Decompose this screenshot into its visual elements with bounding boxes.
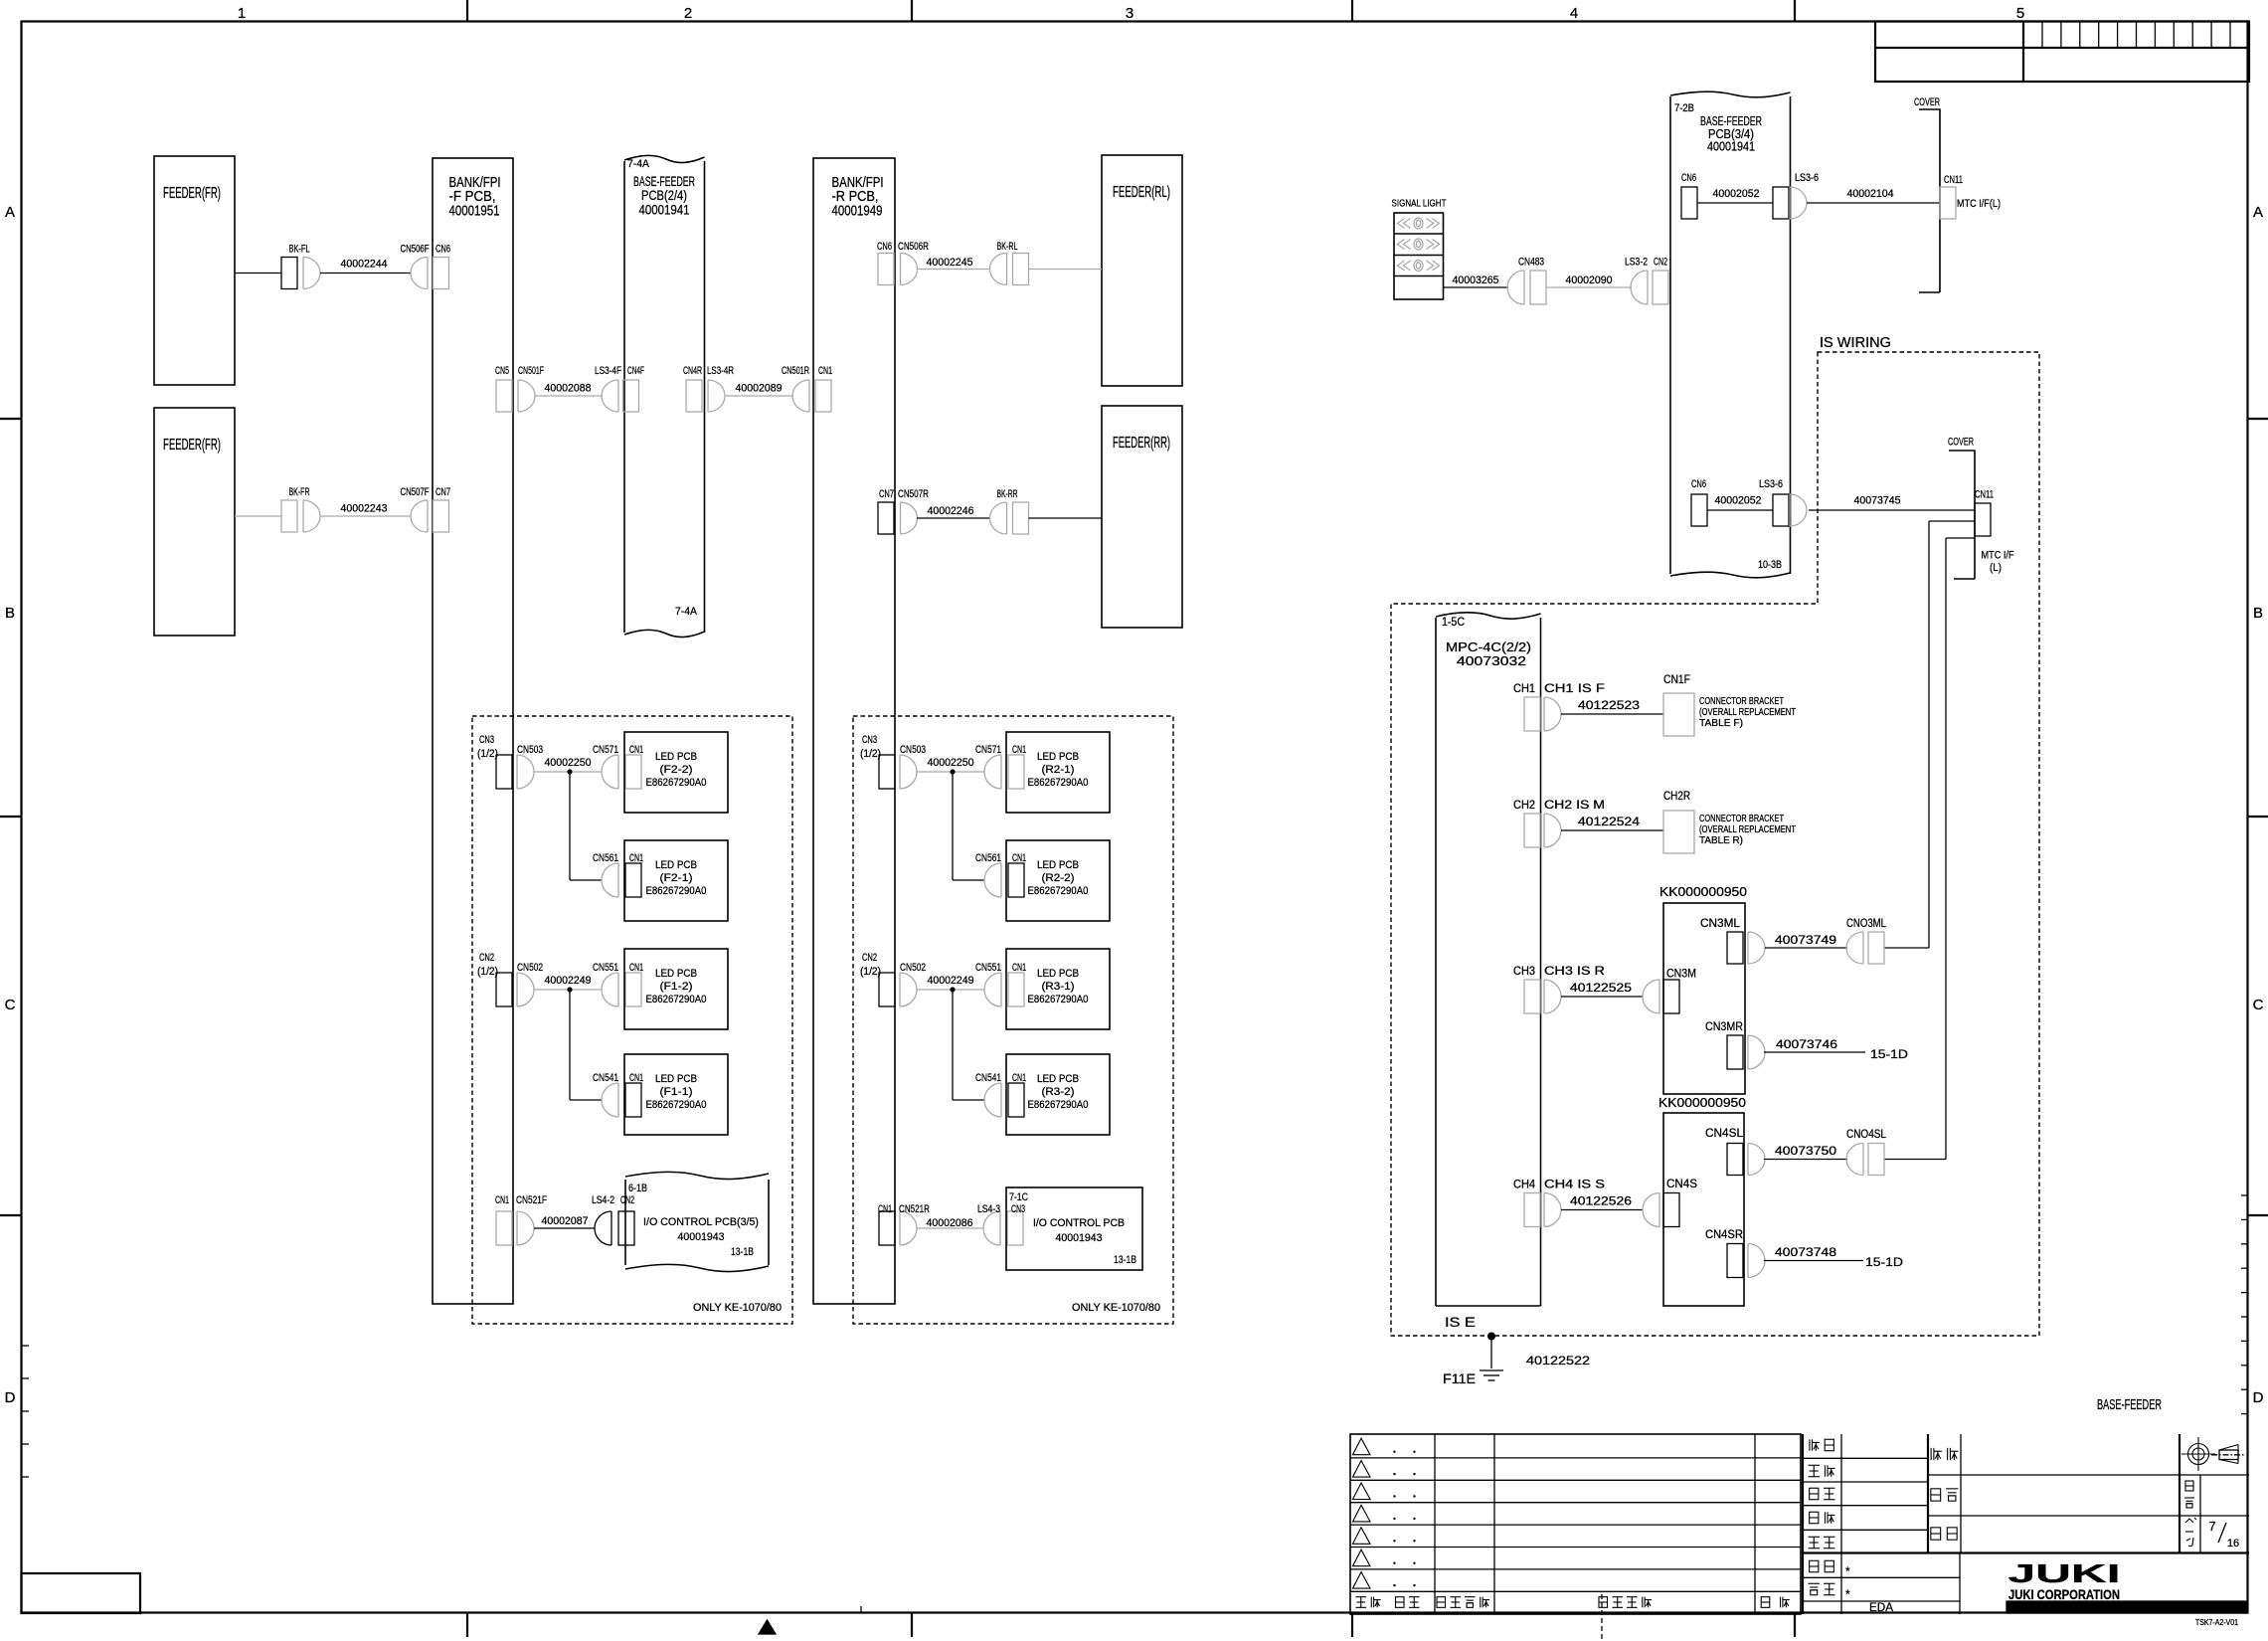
- svg-text:40002243: 40002243: [341, 503, 388, 515]
- svg-text:(1/2): (1/2): [860, 966, 881, 978]
- svg-text:JUKI CORPORATION: JUKI CORPORATION: [2008, 1587, 2120, 1602]
- svg-text:A: A: [5, 204, 15, 221]
- svg-text:CN11: CN11: [1975, 489, 1994, 501]
- svg-text:7-4A: 7-4A: [675, 606, 697, 618]
- svg-text:CN3M: CN3M: [1666, 967, 1696, 981]
- svg-text:MTC I/F: MTC I/F: [1982, 550, 2014, 562]
- svg-text:D: D: [5, 1389, 16, 1406]
- svg-text:(R2-2): (R2-2): [1042, 872, 1075, 884]
- svg-text:15-1D: 15-1D: [1870, 1049, 1908, 1061]
- svg-text:(F2-1): (F2-1): [660, 872, 693, 884]
- svg-text:E86267290A0: E86267290A0: [1028, 885, 1089, 897]
- svg-text:40002104: 40002104: [1847, 188, 1894, 200]
- svg-text:40002244: 40002244: [341, 259, 388, 271]
- svg-text:40122523: 40122523: [1578, 700, 1640, 712]
- svg-text:CN1: CN1: [629, 744, 643, 756]
- svg-text:IS E: IS E: [1445, 1315, 1476, 1330]
- svg-text:1-5C: 1-5C: [1442, 617, 1465, 629]
- svg-text:6-1B: 6-1B: [628, 1183, 647, 1194]
- svg-text:E86267290A0: E86267290A0: [1028, 777, 1089, 789]
- svg-text:C: C: [2253, 997, 2264, 1013]
- svg-text:CN2: CN2: [620, 1194, 634, 1206]
- svg-text:CN3MR: CN3MR: [1705, 1019, 1743, 1033]
- svg-text:13-1B: 13-1B: [1114, 1254, 1136, 1266]
- svg-text:CN502: CN502: [900, 962, 926, 974]
- svg-text:7-4A: 7-4A: [627, 158, 649, 170]
- svg-text:CONNECTOR BRACKET: CONNECTOR BRACKET: [1699, 814, 1784, 824]
- svg-text:*: *: [1845, 1587, 1850, 1601]
- svg-text:CN501R: CN501R: [782, 365, 809, 377]
- svg-text:CN7: CN7: [879, 488, 894, 500]
- svg-text:3: 3: [1126, 5, 1134, 22]
- svg-text:40001949: 40001949: [832, 202, 883, 219]
- svg-text:BK-FR: BK-FR: [289, 486, 310, 498]
- svg-text:CN541: CN541: [593, 1072, 618, 1084]
- svg-text:BK-FL: BK-FL: [289, 244, 310, 256]
- svg-text:CN1: CN1: [1012, 962, 1026, 974]
- svg-text:CN1: CN1: [629, 1072, 643, 1084]
- svg-text:CN2: CN2: [1654, 257, 1667, 269]
- svg-text:40073748: 40073748: [1775, 1247, 1836, 1259]
- svg-text:CN5: CN5: [495, 365, 509, 377]
- svg-text:BASE-FEEDER: BASE-FEEDER: [2097, 1396, 2162, 1413]
- svg-text:CN561: CN561: [975, 852, 1001, 864]
- svg-text:LED PCB: LED PCB: [655, 968, 697, 980]
- svg-text:C: C: [5, 997, 16, 1013]
- svg-text:CN4SL: CN4SL: [1705, 1126, 1743, 1140]
- svg-text:CN1: CN1: [818, 365, 832, 377]
- svg-text:E86267290A0: E86267290A0: [646, 777, 707, 789]
- svg-text:LS3-4F: LS3-4F: [595, 365, 621, 377]
- svg-text:CH3: CH3: [1513, 966, 1535, 978]
- svg-text:CN561: CN561: [593, 852, 618, 864]
- svg-text:CNO3ML: CNO3ML: [1846, 916, 1886, 930]
- svg-text:BK-RL: BK-RL: [997, 241, 1018, 253]
- svg-text:D: D: [2253, 1389, 2264, 1406]
- svg-text:4: 4: [1570, 5, 1578, 22]
- svg-text:LS3-2: LS3-2: [1625, 257, 1648, 269]
- svg-text:40073750: 40073750: [1775, 1146, 1836, 1158]
- svg-text:40002090: 40002090: [1566, 274, 1613, 286]
- svg-text:CN6: CN6: [436, 244, 450, 256]
- svg-text:CH1 IS F: CH1 IS F: [1544, 683, 1605, 695]
- svg-text:40002089: 40002089: [736, 383, 783, 395]
- svg-text:CN3ML: CN3ML: [1700, 916, 1740, 930]
- svg-text:7: 7: [2208, 1519, 2215, 1534]
- svg-text:(1/2): (1/2): [860, 748, 881, 760]
- svg-text:CN1F: CN1F: [1663, 672, 1690, 686]
- svg-text:CN1: CN1: [1012, 744, 1026, 756]
- svg-text:40073749: 40073749: [1775, 935, 1836, 947]
- svg-text:40073032: 40073032: [1457, 654, 1526, 668]
- svg-text:CN1: CN1: [878, 1203, 892, 1215]
- svg-text:15-1D: 15-1D: [1865, 1257, 1903, 1269]
- svg-text:40002250: 40002250: [928, 757, 974, 769]
- svg-text:40001943: 40001943: [678, 1231, 725, 1243]
- svg-text:(1/2): (1/2): [477, 748, 498, 760]
- svg-text:CN551: CN551: [593, 962, 618, 974]
- svg-text:CN521R: CN521R: [899, 1203, 930, 1215]
- svg-text:CONNECTOR BRACKET: CONNECTOR BRACKET: [1699, 696, 1784, 707]
- svg-text:40122522: 40122522: [1526, 1354, 1590, 1367]
- svg-text:40073745: 40073745: [1854, 495, 1901, 507]
- svg-text:CN4SR: CN4SR: [1705, 1227, 1743, 1241]
- svg-text:TABLE F): TABLE F): [1699, 718, 1743, 729]
- svg-text:CN1: CN1: [1012, 1072, 1026, 1084]
- svg-text:40002088: 40002088: [545, 383, 592, 395]
- svg-text:40002086: 40002086: [927, 1217, 973, 1229]
- svg-text:(L): (L): [1990, 562, 2002, 574]
- svg-text:CH1: CH1: [1513, 683, 1535, 695]
- svg-text:CH4 IS S: CH4 IS S: [1544, 1180, 1605, 1191]
- svg-text:CN4S: CN4S: [1666, 1177, 1697, 1190]
- svg-text:B: B: [2253, 605, 2263, 622]
- svg-text:40002249: 40002249: [545, 975, 592, 987]
- svg-text:TSK7-A2-V01: TSK7-A2-V01: [2195, 1618, 2238, 1627]
- svg-text:16: 16: [2227, 1538, 2239, 1550]
- svg-text:KK000000950: KK000000950: [1658, 1096, 1746, 1110]
- svg-text:CN506F: CN506F: [401, 244, 430, 256]
- svg-text:LED PCB: LED PCB: [1037, 859, 1079, 871]
- svg-text:40122524: 40122524: [1578, 817, 1641, 828]
- svg-text:40122525: 40122525: [1570, 983, 1632, 995]
- svg-text:LS3-6: LS3-6: [1759, 478, 1783, 490]
- svg-text:CN11: CN11: [1944, 174, 1963, 186]
- svg-text:CN7: CN7: [436, 486, 450, 498]
- svg-text:IS WIRING: IS WIRING: [1820, 334, 1891, 351]
- svg-text:CN571: CN571: [593, 744, 618, 756]
- svg-text:KK000000950: KK000000950: [1659, 885, 1747, 899]
- svg-text:1: 1: [238, 5, 246, 22]
- svg-text:40003265: 40003265: [1453, 274, 1499, 286]
- svg-text:(1/2): (1/2): [477, 966, 498, 978]
- svg-text:BK-RR: BK-RR: [997, 488, 1018, 500]
- svg-text:(R2-1): (R2-1): [1042, 764, 1075, 776]
- svg-text:LS3-6: LS3-6: [1795, 172, 1819, 184]
- svg-text:(R3-1): (R3-1): [1042, 981, 1075, 993]
- svg-text:CH2R: CH2R: [1663, 789, 1690, 803]
- svg-text:40002250: 40002250: [545, 757, 592, 769]
- svg-text:JUKI: JUKI: [2008, 1558, 2121, 1588]
- svg-text:E86267290A0: E86267290A0: [1028, 994, 1089, 1005]
- svg-text:CN551: CN551: [975, 962, 1001, 974]
- svg-text:ONLY KE-1070/80: ONLY KE-1070/80: [1072, 1302, 1160, 1314]
- svg-text:40002245: 40002245: [927, 257, 973, 269]
- svg-text:40002249: 40002249: [928, 975, 974, 987]
- svg-text:(R3-2): (R3-2): [1042, 1086, 1075, 1098]
- svg-text:CN6: CN6: [877, 241, 892, 253]
- svg-text:40002087: 40002087: [542, 1215, 589, 1227]
- svg-text:ONLY KE-1070/80: ONLY KE-1070/80: [693, 1302, 782, 1314]
- svg-text:E86267290A0: E86267290A0: [1028, 1099, 1089, 1111]
- svg-text:LED PCB: LED PCB: [1037, 968, 1079, 980]
- svg-text:SIGNAL LIGHT: SIGNAL LIGHT: [1392, 198, 1447, 210]
- svg-text:F11E: F11E: [1443, 1371, 1476, 1386]
- svg-text:40001951: 40001951: [449, 202, 500, 219]
- svg-text:40122526: 40122526: [1570, 1196, 1632, 1208]
- svg-text:FEEDER(FR): FEEDER(FR): [163, 185, 221, 202]
- svg-text:E86267290A0: E86267290A0: [646, 1099, 707, 1111]
- svg-text:I/O CONTROL PCB(3/5): I/O CONTROL PCB(3/5): [643, 1216, 759, 1228]
- svg-text:LED PCB: LED PCB: [655, 1073, 697, 1085]
- svg-text:CN483: CN483: [1518, 257, 1544, 269]
- svg-text:FEEDER(RR): FEEDER(RR): [1113, 435, 1170, 452]
- svg-text:COVER: COVER: [1914, 96, 1940, 108]
- svg-text:CN2: CN2: [479, 952, 494, 964]
- svg-text:E86267290A0: E86267290A0: [646, 885, 707, 897]
- svg-text:A: A: [2253, 204, 2263, 221]
- svg-text:(F1-1): (F1-1): [660, 1086, 693, 1098]
- svg-text:FEEDER(RL): FEEDER(RL): [1113, 184, 1170, 201]
- svg-text:CN4F: CN4F: [627, 365, 644, 377]
- svg-text:CN571: CN571: [975, 744, 1001, 756]
- svg-text:(OVERALL REPLACEMENT: (OVERALL REPLACEMENT: [1699, 824, 1796, 835]
- svg-text:(F2-2): (F2-2): [660, 764, 693, 776]
- svg-text:CN1: CN1: [495, 1194, 509, 1206]
- svg-text:CN507R: CN507R: [898, 488, 929, 500]
- svg-text:LS4-2: LS4-2: [592, 1194, 614, 1206]
- svg-text:CN6: CN6: [1691, 478, 1706, 490]
- svg-text:COVER: COVER: [1948, 437, 1974, 449]
- svg-text:LS3-4R: LS3-4R: [707, 365, 734, 377]
- svg-text:B: B: [5, 605, 15, 622]
- svg-text:40073746: 40073746: [1776, 1039, 1837, 1051]
- svg-text:10-3B: 10-3B: [1758, 559, 1782, 571]
- svg-text:CN1: CN1: [629, 852, 643, 864]
- svg-text:LED PCB: LED PCB: [1037, 751, 1079, 763]
- svg-text:7-1C: 7-1C: [1009, 1191, 1028, 1203]
- svg-text:(F1-2): (F1-2): [660, 981, 693, 993]
- svg-text:LS4-3: LS4-3: [977, 1203, 1000, 1215]
- svg-text:(OVERALL REPLACEMENT: (OVERALL REPLACEMENT: [1699, 707, 1796, 718]
- svg-text:40002052: 40002052: [1713, 188, 1760, 200]
- svg-text:CN507F: CN507F: [401, 486, 430, 498]
- svg-text:13-1B: 13-1B: [731, 1246, 754, 1258]
- svg-text:CN6: CN6: [1681, 172, 1696, 184]
- svg-text:CN4R: CN4R: [683, 365, 702, 377]
- svg-text:LED PCB: LED PCB: [655, 751, 697, 763]
- svg-text:LED PCB: LED PCB: [1037, 1073, 1079, 1085]
- svg-text:CN1: CN1: [629, 962, 643, 974]
- svg-text:E86267290A0: E86267290A0: [646, 994, 707, 1005]
- svg-text:LED PCB: LED PCB: [655, 859, 697, 871]
- svg-text:CN503: CN503: [517, 744, 543, 756]
- svg-text:5: 5: [2016, 5, 2024, 22]
- svg-text:CN541: CN541: [975, 1072, 1001, 1084]
- svg-text:CH2: CH2: [1513, 800, 1535, 812]
- svg-text:7-2B: 7-2B: [1674, 102, 1694, 114]
- svg-text:MPC-4C(2/2): MPC-4C(2/2): [1446, 640, 1531, 654]
- svg-text:CN506R: CN506R: [898, 241, 929, 253]
- svg-text:CN3: CN3: [862, 734, 877, 746]
- svg-text:CN1: CN1: [1012, 852, 1026, 864]
- svg-text:CN501F: CN501F: [518, 365, 544, 377]
- svg-text:CH4: CH4: [1513, 1180, 1536, 1191]
- svg-text:TABLE R): TABLE R): [1699, 835, 1743, 846]
- svg-text:CN3: CN3: [479, 734, 494, 746]
- svg-text:CH2 IS M: CH2 IS M: [1544, 800, 1605, 812]
- svg-text:MTC I/F(L): MTC I/F(L): [1957, 198, 2001, 210]
- svg-text:FEEDER(FR): FEEDER(FR): [163, 437, 221, 454]
- svg-text:*: *: [1845, 1564, 1850, 1578]
- svg-text:EDA: EDA: [1869, 1600, 1893, 1614]
- svg-text:40001943: 40001943: [1056, 1232, 1103, 1244]
- svg-text:CNO4SL: CNO4SL: [1846, 1127, 1886, 1141]
- svg-text:2: 2: [684, 5, 692, 22]
- svg-text:I/O CONTROL PCB: I/O CONTROL PCB: [1033, 1217, 1125, 1229]
- svg-text:CN3: CN3: [1011, 1203, 1025, 1215]
- svg-text:40001941: 40001941: [1707, 140, 1755, 154]
- svg-text:40002246: 40002246: [928, 505, 974, 517]
- svg-text:CN502: CN502: [517, 962, 543, 974]
- svg-text:40001941: 40001941: [639, 201, 690, 217]
- svg-text:40002052: 40002052: [1715, 495, 1762, 507]
- svg-text:CN2: CN2: [862, 952, 877, 964]
- svg-text:CN503: CN503: [900, 744, 926, 756]
- svg-text:CN521F: CN521F: [516, 1194, 547, 1206]
- svg-text:CH3 IS R: CH3 IS R: [1544, 966, 1605, 978]
